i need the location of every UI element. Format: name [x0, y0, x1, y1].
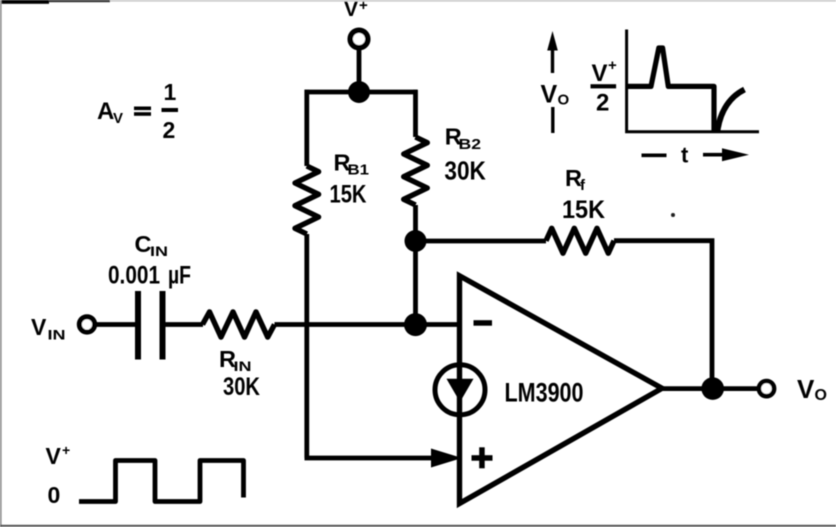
arrowhead into plus input: [431, 449, 462, 468]
label CIN: [108, 231, 191, 290]
wire VIN to CIN: [96, 322, 136, 327]
svg-text:+: +: [608, 57, 617, 74]
svg-text:B1: B1: [348, 162, 370, 179]
terminal VIN: [79, 317, 94, 332]
svg-text:30K: 30K: [444, 156, 486, 186]
border left line: [0, 0, 2, 527]
svg-text:V: V: [31, 314, 47, 340]
border top-left thick bar: [0, 0, 49, 4]
label RB2: [444, 123, 486, 185]
label V+/2: [591, 57, 618, 117]
svg-text:V: V: [46, 443, 62, 469]
op-amp U1 LM3900 triangle: [460, 276, 663, 504]
node feedback junction: [405, 230, 427, 252]
label RB1: [330, 150, 370, 209]
speck: [671, 213, 675, 217]
svg-text:IN: IN: [48, 327, 66, 343]
square wave trace: [79, 461, 244, 502]
svg-text:C: C: [135, 231, 152, 257]
svg-text:A: A: [97, 98, 114, 125]
resistor RB2: [404, 137, 428, 205]
wire Rf to feedback corner: [614, 241, 712, 389]
wire plus-input horizontal: [305, 456, 445, 461]
svg-text:+: +: [62, 442, 70, 458]
waveform trace: [627, 48, 714, 131]
label VO axis: [541, 81, 570, 109]
wire minus node to Rf: [416, 239, 547, 244]
label V+ (top supply): [344, 0, 368, 21]
border bottom line: [0, 525, 836, 527]
svg-text:15K: 15K: [330, 180, 367, 208]
waveform recovery curve: [717, 90, 744, 132]
svg-text:V: V: [797, 374, 815, 404]
resistor RIN: [203, 312, 275, 337]
label VO: [797, 374, 827, 404]
capacitor CIN: [135, 291, 141, 360]
axis tick below VO: [551, 107, 554, 133]
t axis label: [642, 143, 750, 168]
svg-text:B2: B2: [459, 136, 482, 153]
svg-text:IN: IN: [234, 358, 252, 374]
svg-text:15K: 15K: [562, 196, 605, 224]
wire feedback node to minus node: [413, 241, 418, 325]
svg-text:2: 2: [163, 117, 176, 143]
wire rail to RB1: [304, 90, 309, 166]
wire V+ to rail: [357, 49, 362, 93]
label Rf: [562, 165, 605, 224]
terminal VO: [759, 381, 774, 396]
plus sign: [472, 447, 493, 468]
svg-text:V: V: [541, 81, 558, 109]
svg-text:+: +: [359, 0, 368, 14]
wire RIN to minus input: [275, 322, 460, 327]
svg-text:0.001: 0.001: [108, 262, 160, 290]
svg-text:30K: 30K: [223, 373, 260, 401]
svg-text:t: t: [681, 143, 689, 168]
svg-text:0: 0: [48, 482, 61, 508]
terminal V+: [350, 30, 368, 48]
wire opamp output: [660, 386, 757, 391]
label AV = 1/2: [97, 79, 178, 143]
svg-text:LM3900: LM3900: [505, 377, 584, 407]
node minus-input junction: [404, 313, 427, 336]
graph axes: [627, 30, 759, 132]
resistor Rf: [546, 228, 614, 253]
label VIN: [31, 314, 66, 343]
svg-text:IN: IN: [150, 243, 168, 259]
label RIN: [219, 346, 260, 401]
wire rail to RB2: [413, 90, 418, 137]
svg-text:1: 1: [164, 79, 177, 105]
svg-text:V: V: [592, 60, 608, 87]
minus sign: [474, 320, 493, 326]
svg-text:2: 2: [596, 90, 609, 117]
node supply junction: [348, 81, 370, 103]
wire RB2 to feedback node: [413, 205, 418, 241]
wire CIN to RIN: [166, 322, 204, 327]
svg-text:O: O: [815, 387, 827, 404]
current source symbol: [435, 365, 485, 415]
axis arrow up: [547, 31, 558, 73]
wire top rail: [305, 90, 418, 95]
svg-text:V: V: [344, 0, 358, 21]
svg-text:O: O: [558, 92, 570, 109]
resistor RB1: [295, 166, 319, 234]
svg-text:µF: µF: [168, 262, 191, 290]
label V+: [46, 442, 71, 469]
border top line: [0, 0, 836, 2]
wire RB1 down to plus-input run: [304, 234, 309, 458]
svg-text:V: V: [113, 110, 123, 127]
node output junction: [701, 377, 724, 400]
